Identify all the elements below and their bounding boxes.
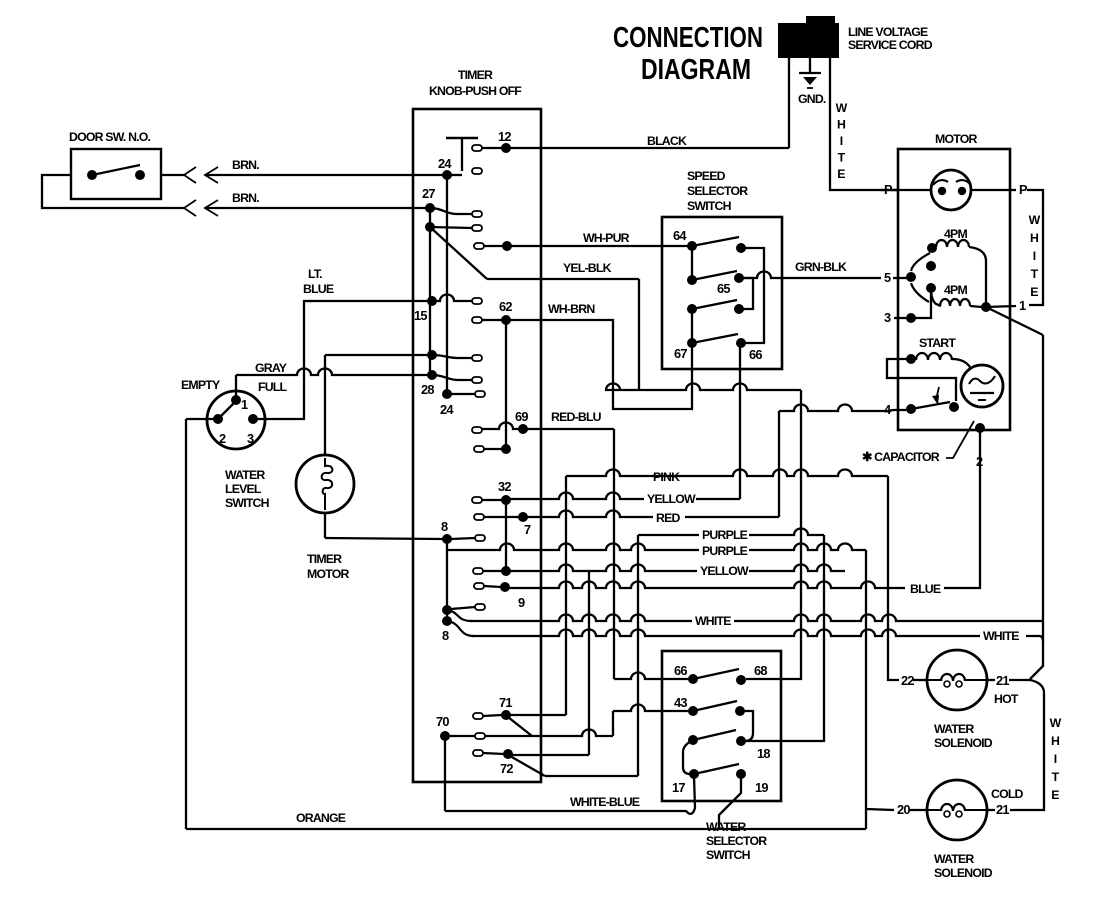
svg-text:4PM: 4PM <box>944 283 967 297</box>
water selector contact row3 left <box>688 735 698 745</box>
wire WH-BRN from 62 <box>506 320 693 409</box>
svg-text:5: 5 <box>884 270 891 285</box>
svg-text:CONNECTION: CONNECTION <box>613 22 763 54</box>
terminal tab 394 <box>475 391 485 397</box>
start switch dot left 4 <box>906 404 916 414</box>
wire GRN-BLK from 65R to motor 5 <box>739 272 881 278</box>
terminal tab 8 mid <box>475 535 485 541</box>
junction dot 8 mid <box>442 534 452 544</box>
svg-text:H: H <box>1030 231 1039 245</box>
capacitor bottom dot 2 <box>975 423 985 433</box>
label YELLOW lower <box>697 566 749 578</box>
cold solenoid coil curls <box>944 811 950 817</box>
svg-text:65: 65 <box>717 281 730 296</box>
ground symbol <box>799 72 821 74</box>
svg-text:SPEED: SPEED <box>687 169 726 183</box>
water selector lever 43 <box>693 701 737 711</box>
water selector lever 17 <box>694 764 739 774</box>
speed selector vertical 64-65 left <box>691 246 693 280</box>
svg-text:2: 2 <box>219 431 226 446</box>
svg-text:24: 24 <box>440 402 454 417</box>
wire PINK drop to hot solenoid 22 <box>888 476 899 680</box>
wire WHITE1 run <box>447 610 472 621</box>
svg-text:64: 64 <box>673 228 687 243</box>
wire YELLOW2-72 riser <box>588 571 590 755</box>
wire BLUE run <box>505 582 905 589</box>
wire GRAY row into timer <box>236 369 432 375</box>
svg-text:SOLENOID: SOLENOID <box>934 866 993 880</box>
svg-text:WHITE: WHITE <box>695 614 731 628</box>
wire tab449 to junction <box>484 448 506 450</box>
terminal tab 62 <box>472 317 482 323</box>
svg-text:BLUE: BLUE <box>303 282 334 296</box>
speed selector contact 66 <box>736 338 746 348</box>
junction dot 571 <box>501 566 511 576</box>
junction dot 7 <box>518 512 528 522</box>
label PURPLE upper <box>699 530 749 542</box>
wire YELLOW from 32 <box>506 493 740 499</box>
winding lower left dot <box>926 283 936 293</box>
svg-text:70: 70 <box>436 714 449 729</box>
svg-text:66: 66 <box>749 347 762 362</box>
speed selector lever 64 <box>692 237 739 246</box>
wire 43 run lower <box>485 730 613 737</box>
svg-text:BRN.: BRN. <box>232 191 259 205</box>
terminal tab 69 <box>472 427 482 433</box>
svg-text:LINE VOLTAGE: LINE VOLTAGE <box>848 25 928 39</box>
svg-text:KNOB-PUSH OFF: KNOB-PUSH OFF <box>429 84 522 98</box>
wire 4 row <box>893 409 906 411</box>
water selector contact 43 left <box>688 706 698 716</box>
wire capacitor 2 drop to BLUE <box>944 428 980 588</box>
label WHITE right <box>980 631 1022 643</box>
speed selector vertical third-67 left <box>691 309 693 343</box>
ground stem <box>809 58 811 72</box>
wire tab71 link <box>483 715 502 716</box>
terminal tab 449 <box>474 446 484 452</box>
start switch dot right <box>949 402 959 412</box>
junction dot 71 <box>501 710 511 720</box>
door switch DOOR SW. N.O. <box>71 149 161 199</box>
svg-text:32: 32 <box>498 479 511 494</box>
wire WH-PUR 63 to speed selector 64 <box>484 245 692 247</box>
speed selector lever third <box>692 300 737 309</box>
wire WHITE-BLUE run <box>445 776 695 814</box>
line voltage service cord block <box>778 23 839 58</box>
wire 71 to PINK riser <box>506 714 566 716</box>
svg-text:LT.: LT. <box>308 267 322 281</box>
junction dot 70 <box>440 731 450 741</box>
svg-text:W: W <box>1050 716 1062 730</box>
svg-text:H: H <box>1051 734 1060 748</box>
svg-text:WATER: WATER <box>225 468 265 482</box>
wire tab571 link <box>483 570 502 572</box>
wire 3 to winding lower <box>911 290 931 318</box>
svg-text:28: 28 <box>421 382 434 397</box>
svg-text:62: 62 <box>499 299 512 314</box>
wire YEL-BLK diagonal from 228 <box>430 227 487 279</box>
junction dot 69 <box>518 424 528 434</box>
wire 32 tab link <box>482 499 502 501</box>
capacitor circle <box>961 365 1003 407</box>
svg-text:BLUE: BLUE <box>910 582 941 596</box>
wire WHITE right leg of cord down to motor P <box>830 58 898 190</box>
wire 21 cold link <box>987 809 995 811</box>
svg-text:1: 1 <box>241 397 248 412</box>
speed selector contact 67 <box>687 338 697 348</box>
vertical 27 to 375 <box>429 208 431 375</box>
water level switch circle <box>207 391 265 449</box>
wire 62 tab link <box>482 319 502 321</box>
wire 3 row <box>894 317 906 319</box>
svg-text:YELLOW: YELLOW <box>700 564 749 578</box>
hot water solenoid circle <box>927 650 987 710</box>
terminal tab below push-off <box>472 168 482 174</box>
svg-text:E: E <box>1030 285 1038 299</box>
wire 70 drop to WHITE-BLUE <box>444 736 446 811</box>
svg-text:DOOR SW. N.O.: DOOR SW. N.O. <box>69 130 151 144</box>
hot solenoid coil curls <box>944 681 950 687</box>
connector chevron top <box>184 167 196 183</box>
svg-text:E: E <box>837 167 845 181</box>
junction dot 9 <box>500 582 510 592</box>
terminal tab 9 <box>474 583 484 589</box>
terminal tab 571 <box>473 568 483 574</box>
svg-text:I: I <box>1033 249 1036 263</box>
junction dot 355 row <box>427 350 437 360</box>
wire PURPLE1 bottom row <box>545 775 638 777</box>
svg-text:SWITCH: SWITCH <box>687 199 732 213</box>
label YELLOW <box>644 494 696 506</box>
start switch arrow <box>936 387 939 400</box>
svg-text:9: 9 <box>518 595 525 610</box>
wire GRAY riser from pin 1 <box>235 375 237 400</box>
wire YEL-BLK horizontal upper <box>487 278 639 280</box>
svg-text:GRAY: GRAY <box>255 361 287 375</box>
hot solenoid coil <box>928 679 941 681</box>
door switch contact left <box>87 170 97 180</box>
speed selector contact third right <box>734 304 744 314</box>
curve 355 row to tab <box>432 355 472 358</box>
svg-text:21: 21 <box>996 802 1009 817</box>
wire 70 to tab <box>450 735 475 737</box>
junction dot 72 <box>503 749 513 759</box>
svg-text:HOT: HOT <box>994 692 1019 706</box>
junction dot 24 top <box>442 170 452 180</box>
wire 72 diagonal to PURPLE1 riser <box>510 756 545 776</box>
water level pin 3 <box>248 414 258 424</box>
svg-text:67: 67 <box>674 346 687 361</box>
junction dot 62 <box>501 315 511 325</box>
svg-text:21: 21 <box>996 673 1009 688</box>
svg-text:68: 68 <box>754 663 767 678</box>
water selector contact 66 <box>688 674 698 684</box>
wire door switch right to connector <box>161 174 184 176</box>
protector contact right <box>958 187 966 195</box>
water level lever <box>218 401 236 419</box>
wire 24 to push-off stem <box>447 174 462 176</box>
timer push-off switch stem <box>461 138 463 171</box>
water selector contact 17 <box>689 769 699 779</box>
junction dot 449 <box>501 444 511 454</box>
svg-text:15: 15 <box>414 308 427 323</box>
timer push-off switch bar <box>446 137 478 139</box>
svg-text:22: 22 <box>901 673 914 688</box>
svg-text:WATER: WATER <box>934 852 974 866</box>
svg-text:FULL: FULL <box>258 380 288 394</box>
svg-text:WHITE-BLUE: WHITE-BLUE <box>570 795 640 809</box>
wire PINK run <box>566 470 888 476</box>
start winding right lead to capacitor <box>952 359 971 369</box>
wire motor 1 diagonal to right rail <box>986 307 1043 335</box>
junction dot 8 white upper <box>442 605 452 615</box>
connector arrow top <box>205 167 218 183</box>
junction dot 32 <box>501 495 511 505</box>
junction dot motor 1 <box>981 302 991 312</box>
svg-text:SWITCH: SWITCH <box>706 848 751 862</box>
junction dot 228 <box>425 222 435 232</box>
wire ORANGE run <box>186 828 866 830</box>
svg-text:GND.: GND. <box>798 92 826 106</box>
wire P row right bracket <box>1010 189 1016 191</box>
wire 5 row <box>880 277 881 279</box>
curve 27 to tab <box>430 208 472 214</box>
water selector link 43R to 18 <box>740 711 753 741</box>
wire 19 drop to ORANGE <box>719 774 741 829</box>
water selector lever row3 <box>693 730 736 740</box>
wire PURPLE2 drop to cold 20 <box>865 550 867 829</box>
water selector contact 18 <box>736 736 746 746</box>
svg-text:I: I <box>1054 752 1057 766</box>
wire PURPLE1 riser <box>637 535 639 776</box>
svg-text:12: 12 <box>498 129 511 144</box>
speed selector lever 67 <box>692 334 738 343</box>
wire 1 into junction <box>986 306 1016 307</box>
svg-text:WH-BRN: WH-BRN <box>548 302 595 316</box>
water selector lever 66 <box>693 669 739 679</box>
junction dot 12 <box>501 143 511 153</box>
svg-text:EMPTY: EMPTY <box>181 378 220 392</box>
timer motor circle <box>296 455 354 513</box>
capacitor bar <box>970 392 994 394</box>
wire 8 upper to tab <box>451 607 475 609</box>
svg-text:COLD: COLD <box>991 787 1024 801</box>
water selector switch box <box>662 651 781 801</box>
terminal tab 7 <box>474 514 484 520</box>
water level pin 2 <box>213 414 223 424</box>
svg-text:17: 17 <box>672 780 685 795</box>
svg-text:LEVEL: LEVEL <box>225 482 262 496</box>
wire YEL-BLK drop to water selector 68 <box>746 390 801 679</box>
svg-text:YELLOW: YELLOW <box>647 492 696 506</box>
label WHITE middle <box>692 616 734 628</box>
wire BLACK horizontal <box>510 147 789 149</box>
wire PURPLE1 drop to 18 <box>746 535 824 741</box>
svg-text:DIAGRAM: DIAGRAM <box>641 54 751 86</box>
wire tab 9 link <box>484 586 501 587</box>
terminal tab 375 row <box>472 377 482 383</box>
terminal tab 12 <box>472 145 482 151</box>
wire RED-BLU from tab 69 <box>482 423 614 430</box>
motor protector circle <box>931 170 971 210</box>
wire YEL-BLK lower run <box>606 384 801 390</box>
curve 375 row to tab <box>432 375 472 380</box>
svg-text:27: 27 <box>422 186 435 201</box>
speed selector contact 65 right <box>734 273 744 283</box>
svg-text:ORANGE: ORANGE <box>296 811 346 825</box>
capacitor tilde <box>969 376 995 384</box>
wire P into protector <box>891 189 931 191</box>
wire motor 4 to RED riser <box>779 405 888 412</box>
wire WHITE2 run <box>447 621 474 636</box>
svg-text:8: 8 <box>441 519 448 534</box>
terminal tab 63 <box>474 243 484 249</box>
speed selector contact 64 left <box>687 241 697 251</box>
svg-text:RED-BLU: RED-BLU <box>551 410 602 424</box>
motor winding 4PM upper <box>936 240 969 247</box>
wire timer motor to 8 <box>325 538 443 539</box>
svg-text:7: 7 <box>524 522 531 537</box>
wire BRN. top to timer 24 <box>205 174 447 176</box>
speed selector contact third left <box>687 304 697 314</box>
connector chevron bottom <box>184 200 196 216</box>
svg-text:1: 1 <box>1019 298 1026 313</box>
water selector link row3L to 17 <box>683 740 693 774</box>
protector contact left <box>938 187 946 195</box>
wire 72 row to YELLOW2 riser <box>508 754 589 756</box>
timer box <box>413 109 541 782</box>
svg-text:3: 3 <box>884 310 891 325</box>
motor start winding <box>916 353 952 360</box>
junction dot 27 <box>425 203 435 213</box>
right rail hot to cold <box>1010 680 1044 810</box>
svg-text:WH-PUR: WH-PUR <box>583 231 630 245</box>
wire 22 link <box>913 679 927 681</box>
vertical 24 to 394 <box>446 175 448 394</box>
water selector contact 19 <box>736 769 746 779</box>
vertical 62 to tab449 <box>505 320 507 449</box>
wire service cord left leg to BLACK <box>788 58 790 148</box>
start winding bracket <box>887 359 956 401</box>
terminal tab 72 <box>473 750 483 756</box>
wire RED-BLU drop <box>613 429 615 679</box>
vertical 8 down to white dots <box>446 539 448 621</box>
centrifugal blade lower <box>911 283 929 302</box>
wire 394 to tab <box>447 393 475 395</box>
svg-text:BLACK: BLACK <box>647 134 687 148</box>
terminal tab 228 <box>472 225 482 231</box>
svg-text:MOTOR: MOTOR <box>307 567 349 581</box>
wire 20 row <box>866 809 894 810</box>
capacitor pointer <box>946 421 974 458</box>
cold solenoid coil <box>928 809 941 811</box>
svg-text:TIMER: TIMER <box>458 68 493 82</box>
speed selector switch box <box>662 217 782 369</box>
svg-text:8: 8 <box>442 628 449 643</box>
wire P bracket corner <box>1027 190 1043 305</box>
wire RED rise to motor 4 <box>778 411 780 517</box>
wire 68 to YEL-BLK riser <box>745 678 747 680</box>
curve 228 to tab <box>430 227 472 228</box>
wire LT.BLUE from pin 3 <box>253 301 312 419</box>
speed selector contact 65 left <box>687 275 697 285</box>
wire RED from 7 <box>523 511 779 517</box>
right rail from motor 1 <box>1042 335 1044 617</box>
wire YEL-BLK vertical <box>638 279 640 390</box>
label PURPLE lower <box>699 546 749 558</box>
timer motor top lead <box>324 355 326 455</box>
svg-text:20: 20 <box>897 802 910 817</box>
cold water solenoid circle <box>927 780 987 840</box>
svg-text:69: 69 <box>515 409 528 424</box>
wire 20 link <box>909 809 927 811</box>
svg-text:RED: RED <box>656 511 680 525</box>
label BLUE <box>907 584 943 596</box>
svg-text:✱ CAPACITOR: ✱ CAPACITOR <box>862 450 940 464</box>
svg-text:18: 18 <box>757 746 770 761</box>
terminal tab 15 row <box>472 298 482 304</box>
right rail white merge <box>1030 617 1043 679</box>
terminal tab 27 <box>472 211 482 217</box>
svg-text:BRN.: BRN. <box>232 158 259 172</box>
contact dot 3 <box>906 313 916 323</box>
svg-text:H: H <box>837 118 846 132</box>
door switch lever <box>92 165 140 175</box>
wire 43 run upper <box>613 705 693 711</box>
capacitor tick <box>978 399 986 401</box>
wire tab 7 link <box>484 516 519 518</box>
water selector contact 68 <box>736 675 746 685</box>
svg-text:SERVICE CORD: SERVICE CORD <box>848 38 933 52</box>
water selector contact 43 right <box>735 706 745 716</box>
connector arrow bottom <box>205 200 218 216</box>
winding upper right lead <box>969 247 986 307</box>
svg-text:GRN-BLK: GRN-BLK <box>795 260 847 274</box>
junction dot 394 <box>442 389 452 399</box>
start winding left dot <box>906 354 916 364</box>
svg-text:WATER: WATER <box>706 820 746 834</box>
svg-text:SOLENOID: SOLENOID <box>934 736 993 750</box>
svg-text:YEL-BLK: YEL-BLK <box>563 261 612 275</box>
svg-text:PURPLE: PURPLE <box>702 528 748 542</box>
timer motor bottom lead <box>324 513 326 538</box>
junction dot 63 <box>502 241 512 251</box>
wire tab72 link <box>483 753 504 754</box>
svg-text:TIMER: TIMER <box>307 552 342 566</box>
svg-text:66: 66 <box>674 663 687 678</box>
wire white2 tail to rail <box>1026 636 1043 641</box>
wire door switch left loop <box>42 175 184 208</box>
contact dot 5 <box>906 272 916 282</box>
svg-text:19: 19 <box>755 780 768 795</box>
wire 43 step up <box>612 711 614 736</box>
start switch lever <box>911 402 950 409</box>
svg-text:WHITE: WHITE <box>983 629 1019 643</box>
speed selector link 65R down to third right <box>739 278 753 309</box>
label PINK <box>650 472 690 484</box>
svg-text:P: P <box>1019 182 1028 197</box>
wire RED-BLU to water selector 66 <box>614 673 693 680</box>
svg-text:PURPLE: PURPLE <box>702 544 748 558</box>
svg-text:W: W <box>836 101 848 115</box>
motor box <box>898 149 1010 430</box>
speed selector contact 64 right <box>736 243 746 253</box>
wire P row left <box>880 189 898 191</box>
door switch contact right <box>135 170 145 180</box>
left rail down to ORANGE <box>185 419 187 829</box>
svg-text:43: 43 <box>674 695 687 710</box>
motor winding 4PM lower <box>940 299 970 306</box>
